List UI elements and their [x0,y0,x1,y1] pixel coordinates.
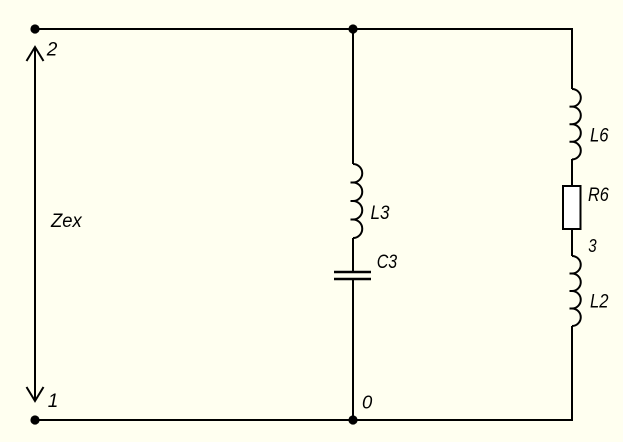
junction dot top middle [348,24,357,33]
svg-text:Zex: Zex [50,210,83,232]
wire between L6 and R6 [571,159,573,185]
arrowhead down (toward node 1) [27,387,44,401]
wire middle branch upper segment [352,29,354,164]
wire bottom (node 1 to bottom-right corner) [35,326,572,420]
resistor R6 [563,186,581,229]
svg-text:1: 1 [48,391,59,412]
svg-text:C3: C3 [377,251,398,273]
junction dot node 1 [30,415,39,424]
svg-text:L6: L6 [590,125,609,147]
Zex measurement arrow shaft [34,47,36,401]
inductor L2 [570,256,581,326]
svg-text:0: 0 [362,392,373,413]
wire between R6 and L2 (node 3) [571,230,573,256]
junction dot node 2 [30,24,39,33]
wire top (node 2 to top-right corner) [35,29,572,89]
capacitor C3 [334,272,371,279]
svg-text:3: 3 [588,235,597,256]
inductor L6 [570,89,581,159]
arrowhead up (toward node 2) [27,47,44,61]
svg-text:2: 2 [46,39,58,60]
wire between L3 and C3 [352,238,354,271]
junction dot node 0 [348,415,357,424]
svg-text:L3: L3 [371,202,390,224]
inductor L3 [351,164,363,238]
wire middle branch lower segment [352,280,354,420]
svg-text:L2: L2 [590,291,609,313]
svg-text:R6: R6 [588,184,609,206]
